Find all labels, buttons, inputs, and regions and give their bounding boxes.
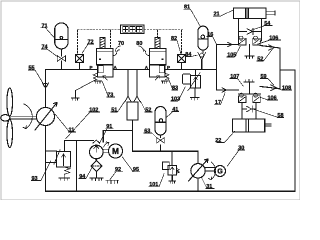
leader 92 [110, 172, 123, 181]
svg-text:82: 82 [171, 36, 177, 42]
svg-text:80: 80 [136, 41, 142, 47]
leader 106b [261, 98, 278, 101]
svg-text:30: 30 [238, 145, 244, 151]
leader 17 [215, 93, 226, 105]
wire motor31 bottom [197, 178, 199, 191]
wire right vertical [294, 70, 296, 191]
pilot check valve lower-right [253, 93, 260, 103]
svg-text:108: 108 [282, 85, 291, 91]
arrow on y44 line [228, 42, 233, 46]
svg-text:84: 84 [185, 52, 192, 58]
leader 94 [79, 168, 92, 179]
wire relief103 riser [195, 70, 197, 76]
leader 22 [217, 131, 235, 142]
wire accumulator71 stem [60, 49, 62, 70]
check valve 51 arrow [125, 96, 132, 102]
proportional relief valve 103 [183, 73, 201, 91]
wire relief102 riser [171, 151, 173, 165]
solenoid valve 70 [93, 38, 119, 81]
arrow on y89.5 line [222, 88, 227, 92]
svg-text:16: 16 [207, 32, 213, 38]
wire charge line y140 [65, 140, 94, 142]
svg-text:G: G [217, 167, 223, 176]
leader 107 [230, 79, 244, 87]
svg-text:P: P [90, 65, 93, 70]
svg-text:95: 95 [133, 167, 139, 173]
relief93 tank [59, 178, 70, 181]
svg-text:54: 54 [264, 21, 271, 27]
pilot check valve upper-right [253, 36, 260, 45]
wind rotor blades [1, 88, 37, 148]
leader 101a [66, 112, 100, 139]
svg-text:21: 21 [214, 12, 220, 18]
wire lower intervalve [239, 93, 261, 95]
wire check54 line [240, 31, 262, 33]
variable motor 31 [189, 159, 209, 181]
svg-text:70: 70 [118, 41, 124, 47]
tank under bus (74 drain) [71, 98, 79, 101]
svg-text:92: 92 [115, 167, 121, 173]
leader 81 [184, 9, 200, 26]
svg-text:74: 74 [42, 44, 49, 50]
svg-text:102: 102 [89, 107, 98, 113]
leader 52b [141, 101, 153, 112]
wire left vertical lower [45, 126, 47, 192]
solenoid valve 80 [143, 38, 169, 81]
wire upper valve out [260, 46, 280, 49]
ball check valve 84 [198, 52, 206, 60]
wire lower ports [242, 103, 256, 119]
leader 80 hook [139, 46, 144, 52]
accumulator 71 [55, 23, 68, 49]
wire dashed drop to sensor82 [181, 30, 183, 55]
leader 54 [252, 26, 272, 31]
leader 73 [102, 81, 115, 97]
wire pilot line y44 [217, 44, 239, 46]
wire main bus mid [113, 69, 150, 71]
svg-text:106: 106 [268, 95, 277, 101]
main pump 11 [35, 103, 57, 131]
wire motor31 top [197, 151, 199, 163]
leader 106 [258, 40, 281, 44]
rotor shaft [10, 116, 37, 119]
svg-text:22: 22 [215, 138, 221, 144]
generator G [205, 162, 225, 180]
wire left vertical upper [45, 70, 47, 108]
svg-text:101: 101 [149, 182, 158, 188]
check valve 52 arrow [134, 96, 141, 102]
wire cylinder21 port right [260, 19, 261, 42]
charge pump 91 [90, 140, 104, 159]
leader 51 [111, 101, 125, 112]
relief103 tank [190, 98, 199, 101]
wire bottom bus [46, 190, 296, 192]
filter tank [90, 178, 103, 181]
wire dashed drop to solenoid80 [157, 30, 159, 38]
svg-text:72: 72 [88, 39, 94, 45]
wire dashed controller right [144, 29, 184, 31]
leader 102 [149, 174, 164, 187]
wire tee to charge pump [103, 131, 132, 143]
svg-text:91: 91 [106, 124, 112, 130]
svg-text:93: 93 [32, 176, 38, 182]
leader 93 [32, 161, 52, 181]
wire sensor72 stem [79, 63, 81, 70]
leader 58 [254, 109, 284, 117]
junction arrow 59 [271, 85, 277, 91]
svg-text:17: 17 [215, 100, 221, 106]
leader 91 [99, 129, 113, 144]
leader 11 [55, 114, 76, 132]
svg-text:81: 81 [184, 5, 190, 11]
wire right tie [280, 69, 295, 71]
leader 31 [202, 178, 215, 189]
leader 83 [169, 79, 178, 90]
electric motor M [103, 142, 122, 158]
leader 41 [167, 112, 179, 118]
wire 59 line [260, 87, 280, 89]
wire check58 line [242, 108, 256, 110]
svg-text:105: 105 [227, 52, 236, 58]
leader 95 [122, 157, 139, 172]
wire relief102 drain [171, 175, 173, 181]
wire dashed drop to solenoid70 [110, 30, 112, 48]
filter 94 [91, 161, 102, 179]
wire accumulator41 stem [160, 135, 162, 151]
svg-text:58: 58 [277, 113, 283, 119]
check valve 58 [247, 106, 253, 112]
wire pilot line y89.5 [217, 89, 239, 91]
relief valve 93 [46, 150, 71, 178]
svg-text:11: 11 [69, 127, 75, 133]
tank T2 [244, 79, 254, 82]
wire tank T1 stem [249, 45, 251, 57]
leader 108 [277, 89, 292, 91]
wire manifold down [132, 120, 134, 151]
flow arrow 55 [42, 83, 48, 88]
svg-text:P: P [167, 65, 170, 70]
svg-text:52: 52 [145, 107, 151, 113]
leader 21 [213, 10, 233, 16]
wire relief93 riser [64, 141, 66, 152]
tank T1 [245, 56, 254, 59]
leader 71 [41, 28, 55, 39]
accumulator 41 [155, 107, 166, 136]
wire main bus right [166, 69, 217, 71]
wire sensor82 stem [181, 63, 183, 70]
lock cylinder 30 [233, 119, 272, 132]
wire manifold drop right [136, 70, 138, 97]
svg-text:M: M [112, 146, 119, 156]
wire tank T2 stem [249, 83, 251, 95]
leader 63 [144, 133, 158, 139]
wire right short vertical [279, 48, 281, 89]
svg-text:31: 31 [206, 184, 212, 190]
wire dashed drop to sensor72 [77, 30, 79, 55]
svg-text:63: 63 [144, 128, 150, 134]
svg-text:59: 59 [261, 74, 267, 80]
leader 16 [207, 37, 217, 45]
leader 55 [29, 70, 44, 84]
leader 84 [185, 55, 197, 56]
pitch cylinder 21 [234, 8, 276, 19]
wire lower bus y150.7 [133, 150, 199, 152]
wire vertical x215 [216, 45, 218, 91]
svg-text:41: 41 [172, 107, 178, 113]
wire valve70 drain diagonal [76, 80, 96, 98]
svg-text:107: 107 [230, 74, 239, 80]
relief102 tank [169, 181, 176, 184]
svg-text:52: 52 [257, 56, 263, 62]
leader 74 [42, 49, 59, 57]
svg-text:55: 55 [29, 65, 35, 71]
charge valve 63 [157, 138, 164, 143]
leader 30 [227, 150, 245, 167]
check valve 54 [247, 29, 253, 35]
leader 105 [227, 46, 241, 57]
relief valve 102 [163, 162, 180, 175]
wire dashed controller left [78, 29, 121, 31]
pump91 to filter stem [95, 159, 97, 161]
svg-text:83: 83 [172, 85, 178, 91]
valve70 tank [94, 81, 101, 84]
valve 74 (shutoff) [57, 56, 65, 62]
leader 82 [171, 41, 181, 54]
controller U1 box [121, 25, 145, 34]
valve80 tank [161, 81, 168, 84]
svg-text:106: 106 [269, 35, 278, 41]
svg-text:51: 51 [111, 107, 117, 113]
wire main bus left [46, 69, 97, 71]
svg-text:71: 71 [42, 23, 48, 29]
svg-text:94: 94 [79, 174, 86, 180]
svg-text:73: 73 [107, 92, 113, 98]
rotation arc [23, 104, 32, 129]
leader 70 hook [115, 46, 120, 52]
accumulator 81 [198, 26, 208, 50]
wire cylinder21 port left [238, 19, 240, 38]
tank 92 [106, 180, 119, 183]
svg-text:103: 103 [171, 96, 180, 102]
pressure sensor 82 [178, 55, 186, 63]
pilot check valve lower-left [239, 93, 247, 103]
shuttle manifold block [127, 102, 138, 120]
wire manifold drop left [127, 70, 129, 97]
leader 103 [171, 87, 186, 102]
leader 52 [257, 49, 273, 61]
wire relief103 drain [194, 88, 196, 98]
junction arrow 52 [269, 45, 275, 50]
wire accumulator81 stem [202, 50, 203, 69]
wire vertical x76 [76, 141, 78, 192]
leader 72 [82, 44, 94, 54]
leader 59 [260, 79, 274, 86]
pilot check valve upper-left [239, 36, 247, 45]
pressure sensor 72 [76, 55, 84, 63]
